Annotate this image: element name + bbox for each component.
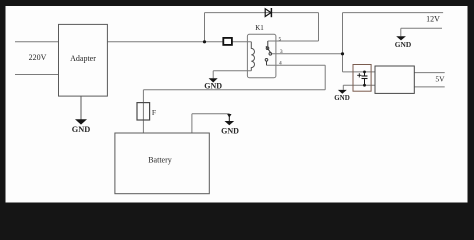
wire coil ground drop — [212, 71, 214, 79]
wire regulator input bottom rail — [343, 84, 375, 86]
wire 12V ground bend — [400, 28, 402, 36]
svg-text:220V: 220V — [29, 53, 47, 62]
connector J1 small square on coil wire — [223, 38, 232, 45]
wire adapter output to relay coil — [107, 41, 251, 43]
wire fuse vertical to battery — [142, 90, 144, 133]
wire regulator input top — [343, 71, 376, 73]
wire relay pin 3 to 12V node — [272, 53, 343, 55]
ground 12V GND — [395, 36, 411, 49]
node junction dot 12V / pin3 — [341, 52, 344, 55]
wire 5V output top — [414, 72, 444, 74]
svg-text:Battery: Battery — [148, 156, 172, 165]
wire relay pin 4 — [267, 64, 326, 66]
wire relay coil bottom lead — [213, 70, 251, 72]
wire battery negative vertical — [191, 114, 193, 133]
svg-text:12V: 12V — [426, 15, 440, 24]
ground adapter GND — [72, 119, 90, 134]
svg-text:GND: GND — [204, 82, 222, 91]
svg-text:5: 5 — [279, 37, 282, 43]
svg-text:Adapter: Adapter — [70, 54, 96, 63]
svg-text:K1: K1 — [255, 24, 264, 32]
capacitor C1 — [357, 71, 367, 87]
svg-text:GND: GND — [72, 125, 90, 134]
relay K1 box — [247, 34, 276, 77]
wire relay pin 5 — [268, 40, 319, 42]
wire battery feed bottom run — [143, 89, 325, 91]
svg-text:GND: GND — [334, 94, 350, 102]
wire diode top line — [205, 12, 319, 14]
wire 12V ground horizontal — [401, 27, 442, 29]
svg-text:5V: 5V — [435, 75, 445, 84]
regulator U1 box — [375, 66, 414, 93]
wire 5V output bottom — [414, 86, 444, 88]
svg-text:F: F — [152, 108, 156, 117]
fuse F — [137, 103, 150, 120]
svg-text:4: 4 — [279, 61, 282, 67]
node junction dot at adapter output — [203, 40, 206, 43]
wire drop from diode line to relay pin 5 — [318, 13, 320, 41]
relay coil — [251, 42, 254, 71]
svg-text:3: 3 — [280, 49, 283, 55]
wire pin 4 drop — [324, 65, 326, 90]
ground regulator GND — [334, 90, 350, 102]
ground battery GND — [221, 114, 239, 136]
wire 220V bottom into adapter — [15, 74, 59, 76]
wire 12V vertical drop to regulator input — [342, 13, 344, 72]
relay contacts — [265, 41, 271, 65]
capacitor module box — [353, 65, 371, 92]
wire regulator ground stem — [342, 85, 344, 90]
wire adapter ground stem — [80, 96, 82, 120]
wire 12V rail — [343, 12, 444, 14]
battery box — [115, 133, 209, 194]
adapter box — [59, 24, 108, 96]
svg-text:GND: GND — [395, 40, 411, 49]
ground relay coil GND — [204, 78, 222, 90]
wire vertical at junction up to diode line — [204, 13, 206, 42]
wire 220V top into adapter — [15, 41, 59, 43]
wire battery negative horizontal to ground — [192, 113, 229, 115]
diode D1 — [265, 8, 271, 17]
svg-text:GND: GND — [221, 127, 239, 136]
